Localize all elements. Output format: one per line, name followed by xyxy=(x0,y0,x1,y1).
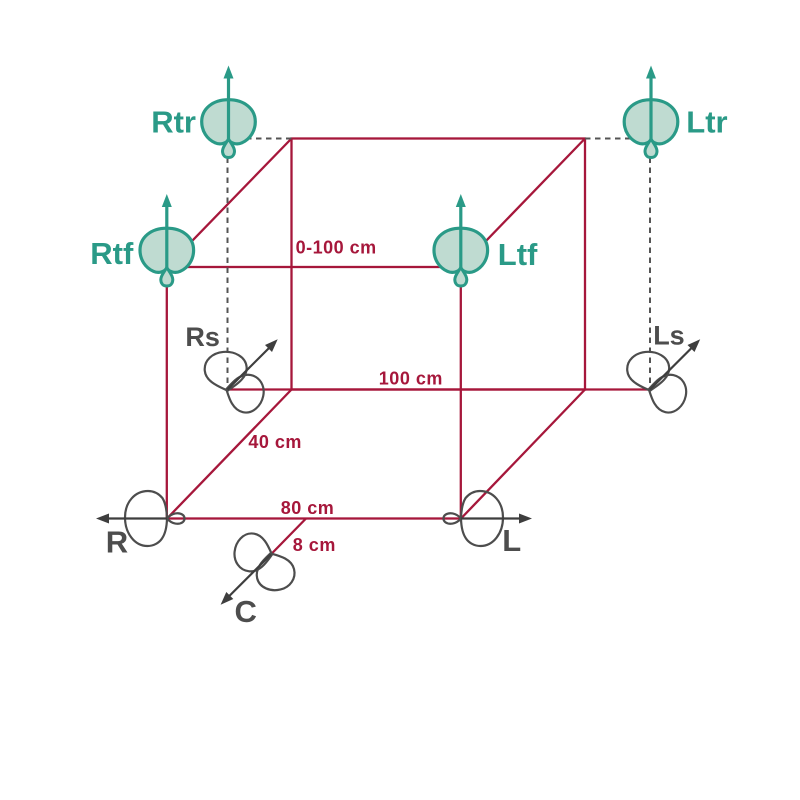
wire diagonal top-right xyxy=(461,139,585,268)
svg-text:Ls: Ls xyxy=(653,321,685,351)
dashed drop Rtr to Rs xyxy=(227,158,229,390)
svg-text:L: L xyxy=(502,523,521,558)
microphone Ltr xyxy=(624,66,678,158)
polar pattern L xyxy=(443,491,503,546)
svg-text:80 cm: 80 cm xyxy=(281,498,335,518)
wire diagonal top-left xyxy=(167,139,292,268)
dashed drop Ltr to Ls xyxy=(649,158,651,390)
microphone Rtr xyxy=(202,66,256,158)
arrow R xyxy=(107,517,167,519)
svg-text:Rtf: Rtf xyxy=(90,236,134,271)
microphone Ltf xyxy=(434,194,488,286)
polar pattern R xyxy=(125,491,185,546)
polar pattern C xyxy=(233,532,298,595)
polar pattern Ls xyxy=(626,350,690,416)
wire rear bottom line Rs-Ls xyxy=(228,388,651,390)
svg-text:C: C xyxy=(235,594,257,629)
wire front face xyxy=(167,267,461,519)
arrow Rs xyxy=(228,347,270,389)
svg-text:8 cm: 8 cm xyxy=(293,535,336,555)
dashed link corner to Ltr xyxy=(585,138,648,140)
svg-text:Ltr: Ltr xyxy=(686,105,727,140)
arrow Ls xyxy=(650,347,692,389)
svg-text:Ltf: Ltf xyxy=(498,237,538,272)
wire 8cm branch to C xyxy=(271,519,306,555)
arrow C xyxy=(228,555,270,597)
svg-text:100 cm: 100 cm xyxy=(379,369,443,389)
svg-text:Rtr: Rtr xyxy=(151,105,196,140)
svg-text:R: R xyxy=(106,524,128,559)
wire diagonal bottom-left 40cm xyxy=(167,390,292,519)
polar pattern Rs xyxy=(203,350,267,416)
svg-text:Rs: Rs xyxy=(185,322,220,352)
dashed link Rtr to cube corner xyxy=(232,138,292,140)
arrow L xyxy=(461,517,521,519)
svg-text:0-100 cm: 0-100 cm xyxy=(296,238,377,258)
wire diagonal bottom-right xyxy=(461,390,585,519)
svg-text:40 cm: 40 cm xyxy=(248,432,302,452)
microphone Rtf xyxy=(140,194,194,286)
wire rear face xyxy=(292,139,586,390)
